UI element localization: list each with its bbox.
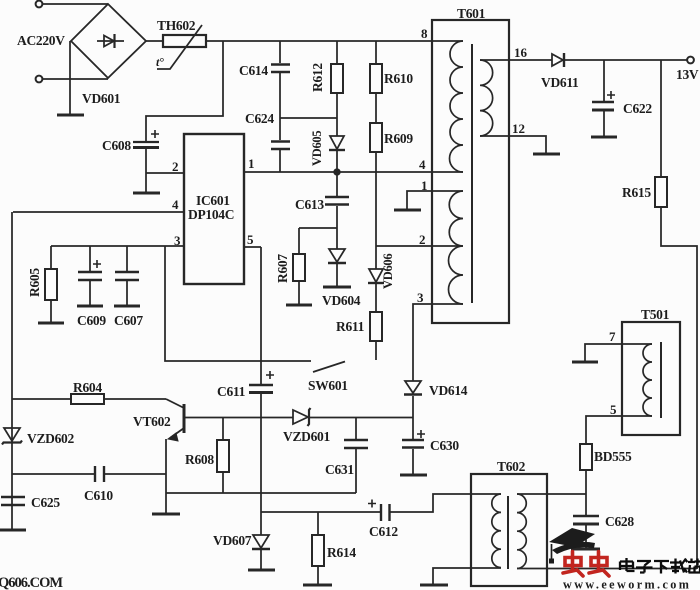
svg-text:VD607: VD607 bbox=[213, 533, 252, 548]
svg-text:3: 3 bbox=[417, 290, 424, 305]
svg-text:C631: C631 bbox=[325, 462, 354, 477]
svg-text:R612: R612 bbox=[310, 63, 325, 92]
svg-text:C622: C622 bbox=[623, 101, 652, 116]
svg-text:SW601: SW601 bbox=[308, 378, 348, 393]
svg-text:VZD601: VZD601 bbox=[283, 429, 331, 444]
svg-text:R604: R604 bbox=[73, 380, 102, 395]
svg-text:VD605: VD605 bbox=[310, 131, 324, 166]
svg-text:3: 3 bbox=[174, 233, 181, 248]
svg-text:1: 1 bbox=[421, 178, 428, 193]
svg-text:C630: C630 bbox=[430, 438, 459, 453]
svg-text:R609: R609 bbox=[384, 131, 413, 146]
svg-text:8: 8 bbox=[421, 26, 428, 41]
svg-text:VD601: VD601 bbox=[82, 91, 121, 106]
svg-text:13V: 13V bbox=[676, 67, 699, 82]
svg-text:C612: C612 bbox=[369, 524, 398, 539]
svg-text:C610: C610 bbox=[84, 488, 113, 503]
svg-text:R605: R605 bbox=[27, 268, 42, 297]
svg-text:VT602: VT602 bbox=[133, 414, 171, 429]
svg-text:IC601: IC601 bbox=[196, 193, 230, 208]
svg-text:C614: C614 bbox=[239, 63, 268, 78]
svg-text:R608: R608 bbox=[185, 452, 214, 467]
svg-text:C625: C625 bbox=[31, 495, 60, 510]
svg-text:C611: C611 bbox=[217, 384, 246, 399]
svg-text:www.eeworm.com: www.eeworm.com bbox=[563, 578, 691, 590]
svg-text:Q606.COM: Q606.COM bbox=[0, 575, 63, 590]
svg-text:4: 4 bbox=[419, 157, 426, 172]
svg-text:C609: C609 bbox=[77, 313, 106, 328]
svg-text:TH602: TH602 bbox=[157, 18, 196, 33]
svg-text:1: 1 bbox=[248, 156, 255, 171]
svg-text:VD611: VD611 bbox=[541, 75, 579, 90]
svg-text:VD614: VD614 bbox=[429, 383, 468, 398]
svg-text:2: 2 bbox=[172, 159, 179, 174]
svg-text:VD606: VD606 bbox=[381, 254, 395, 289]
svg-text:5: 5 bbox=[610, 402, 617, 417]
svg-text:DP104C: DP104C bbox=[188, 207, 234, 222]
svg-text:5: 5 bbox=[247, 232, 254, 247]
svg-text:R611: R611 bbox=[336, 319, 365, 334]
svg-text:4: 4 bbox=[172, 197, 179, 212]
svg-text:R614: R614 bbox=[327, 545, 356, 560]
svg-text:R610: R610 bbox=[384, 71, 413, 86]
svg-text:2: 2 bbox=[419, 232, 426, 247]
svg-text:BD555: BD555 bbox=[594, 449, 632, 464]
svg-text:R607: R607 bbox=[275, 254, 290, 283]
svg-text:C624: C624 bbox=[245, 111, 274, 126]
svg-text:C608: C608 bbox=[102, 138, 131, 153]
svg-text:C628: C628 bbox=[605, 514, 634, 529]
svg-text:12: 12 bbox=[512, 121, 525, 136]
svg-text:16: 16 bbox=[514, 45, 528, 60]
svg-text:T601: T601 bbox=[457, 6, 486, 21]
svg-text:T602: T602 bbox=[497, 459, 526, 474]
svg-text:7: 7 bbox=[609, 329, 616, 344]
svg-text:t°: t° bbox=[156, 55, 164, 69]
svg-text:C607: C607 bbox=[114, 313, 143, 328]
svg-text:AC220V: AC220V bbox=[17, 33, 65, 48]
svg-text:T501: T501 bbox=[641, 307, 670, 322]
svg-text:R615: R615 bbox=[622, 185, 651, 200]
svg-text:VZD602: VZD602 bbox=[27, 431, 75, 446]
svg-text:C613: C613 bbox=[295, 197, 324, 212]
svg-text:VD604: VD604 bbox=[322, 293, 361, 308]
